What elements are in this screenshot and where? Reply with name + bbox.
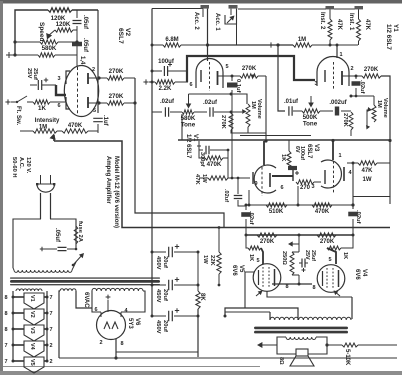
svg-text:1M: 1M xyxy=(298,37,306,43)
wire inst pads link xyxy=(238,8,355,10)
heater V3 xyxy=(4,325,52,341)
wire V2 plate upper xyxy=(88,77,107,79)
svg-text:V2: V2 xyxy=(124,28,131,36)
svg-text:Ampeg Amplifier: Ampeg Amplifier xyxy=(105,156,111,204)
svg-text:.05uf: .05uf xyxy=(54,228,60,243)
label 270K Y1R xyxy=(364,67,379,73)
feedback arrow xyxy=(288,235,299,247)
node xyxy=(231,75,234,78)
svg-text:20uf: 20uf xyxy=(162,320,168,332)
label 1K grid V5 xyxy=(248,254,254,261)
label pins 1,4 xyxy=(79,56,85,65)
label 25uf 25V cath xyxy=(304,250,316,261)
svg-text:.01uf: .01uf xyxy=(284,99,299,105)
tube V3 left dashed xyxy=(261,167,263,196)
svg-text:2: 2 xyxy=(49,359,52,365)
svg-text:Tone: Tone xyxy=(303,121,318,128)
capacitor 100uf v3 xyxy=(288,166,299,175)
svg-text:470K: 470K xyxy=(315,209,330,215)
node xyxy=(248,204,251,207)
resistor 250ohm xyxy=(290,252,299,275)
tube V4 envelope xyxy=(317,265,345,293)
resistor 470K drv xyxy=(312,203,332,207)
wire secondary left xyxy=(277,337,296,354)
svg-text:5Y3: 5Y3 xyxy=(127,318,133,329)
label Ft. Sw. xyxy=(15,106,21,125)
node xyxy=(336,44,339,47)
wire acc1 down xyxy=(236,24,238,45)
capacitor 25uf cath xyxy=(299,259,308,273)
jack Inst.2 pad xyxy=(326,6,335,9)
svg-text:3: 3 xyxy=(311,184,314,190)
svg-text:1/2 6SL7: 1/2 6SL7 xyxy=(185,134,191,159)
label 1M intensity xyxy=(39,125,47,131)
svg-text:.02uf: .02uf xyxy=(160,99,175,105)
label V1 1/2 6SL7 xyxy=(185,134,198,159)
svg-text:450V: 450V xyxy=(155,256,161,270)
svg-text:Speed: Speed xyxy=(38,22,45,42)
border bottom inner line xyxy=(3,366,260,368)
label 270K V2b xyxy=(109,93,124,100)
svg-text:V6: V6 xyxy=(134,318,140,326)
transformer core xyxy=(10,277,160,285)
label 120V AC xyxy=(11,157,31,178)
label pin 4 xyxy=(124,308,128,314)
svg-text:7: 7 xyxy=(49,311,52,317)
tube V2 center dashed xyxy=(77,67,79,115)
svg-text:V1: V1 xyxy=(29,295,35,302)
node xyxy=(355,75,358,78)
svg-text:8: 8 xyxy=(4,311,7,317)
heater bus left xyxy=(12,291,14,361)
svg-text:470K: 470K xyxy=(207,161,222,168)
primary box xyxy=(13,219,76,268)
label 47K 1W v3 xyxy=(194,174,207,185)
svg-text:8Ω: 8Ω xyxy=(278,357,284,365)
ground bus filters xyxy=(152,9,203,317)
tube V3 right arch xyxy=(321,160,341,188)
tube V6 envelope xyxy=(97,311,126,340)
svg-text:V4: V4 xyxy=(29,343,35,351)
HV winding xyxy=(92,288,143,291)
node junction 42 xyxy=(75,40,78,43)
svg-text:6: 6 xyxy=(189,82,192,88)
resistor 120K upper xyxy=(48,8,98,12)
svg-text:1K: 1K xyxy=(342,252,348,259)
wire plate drop xyxy=(135,78,224,228)
label 580K xyxy=(42,45,57,52)
primary winding xyxy=(14,270,72,272)
label pin 6 xyxy=(189,82,192,88)
resistor 5-10K xyxy=(342,343,358,347)
label 470K drv xyxy=(315,209,330,215)
svg-text:270K: 270K xyxy=(109,68,124,75)
resistor 1M input xyxy=(293,43,358,47)
label 580K Tone xyxy=(181,115,196,129)
pot Volume 1M acc xyxy=(242,104,250,133)
node xyxy=(230,111,233,114)
wire right column xyxy=(97,10,99,113)
svg-text:47K: 47K xyxy=(361,168,373,174)
tube V5 envelope xyxy=(253,264,281,292)
border bottom bar xyxy=(0,371,402,375)
svg-text:450V: 450V xyxy=(155,289,161,303)
svg-text:Model M-12 (6V6 version): Model M-12 (6V6 version) xyxy=(113,156,119,228)
svg-text:47K: 47K xyxy=(194,174,200,185)
node xyxy=(97,101,100,104)
svg-text:270K: 270K xyxy=(109,93,124,100)
resistor 470K v3 xyxy=(199,150,228,160)
tube Y1 right arch xyxy=(317,57,349,86)
svg-text:fuse 2A: fuse 2A xyxy=(77,221,83,243)
resistor 270 v3 xyxy=(296,180,321,184)
label .05uf upper xyxy=(82,15,88,30)
tube V5 grids xyxy=(259,267,275,288)
node xyxy=(276,43,279,46)
svg-text:8: 8 xyxy=(285,284,288,290)
capacitor 20uf 450V @252 xyxy=(151,244,200,269)
tube Y1 left electrodes xyxy=(201,70,218,85)
node xyxy=(331,139,334,142)
label 47K inst1 xyxy=(364,19,370,31)
node xyxy=(151,81,154,84)
wire primary sides xyxy=(13,262,76,270)
label Inst. 2 xyxy=(319,12,325,30)
wire grid inst xyxy=(336,45,338,58)
svg-text:.02uf: .02uf xyxy=(248,211,254,225)
label .02uf acc2 xyxy=(203,100,218,106)
resistor 270K V2b xyxy=(107,101,135,105)
tube Y1 right electrodes xyxy=(325,70,342,85)
label pin 8 V4 xyxy=(312,285,315,291)
node junction xyxy=(13,53,16,56)
wire plate row xyxy=(245,204,354,207)
svg-text:20uf: 20uf xyxy=(162,256,168,268)
wire V3R cathode xyxy=(297,186,299,205)
resistor 6.8M xyxy=(163,43,181,47)
wire plate feed xyxy=(245,272,254,308)
svg-text:47K: 47K xyxy=(364,19,370,31)
resistor 1K grid V4 xyxy=(327,235,353,264)
wire v3 cathode xyxy=(272,170,293,181)
switch Ft.Sw. xyxy=(5,96,27,105)
node xyxy=(230,93,233,96)
label pin 6 xyxy=(57,103,60,109)
svg-text:100uf: 100uf xyxy=(158,59,175,65)
capacitor .1uf Y1L xyxy=(227,76,237,178)
resistor 270K Y1R xyxy=(362,74,381,78)
rectifier winding xyxy=(60,289,76,291)
pot Speed wiper xyxy=(46,30,55,40)
svg-text:7: 7 xyxy=(49,295,52,301)
svg-text:V4: V4 xyxy=(361,269,367,277)
resistor 270K V2a xyxy=(107,76,135,80)
node xyxy=(151,70,154,73)
label pin 8 V5 xyxy=(285,284,288,290)
wire V3L grid xyxy=(263,141,265,165)
jack Acc.2 leads xyxy=(203,9,208,45)
label 47K 1W out xyxy=(361,168,373,183)
wire 6.8M row xyxy=(152,44,208,46)
svg-text:.1uf: .1uf xyxy=(102,115,108,127)
resistor 1K v3 xyxy=(287,140,291,168)
svg-text:25V: 25V xyxy=(304,250,310,260)
svg-text:6V: 6V xyxy=(294,146,300,153)
svg-text:Acc. 2: Acc. 2 xyxy=(193,12,199,30)
svg-text:8K: 8K xyxy=(199,293,205,301)
wire to 5-10K xyxy=(327,344,342,346)
svg-text:450V: 450V xyxy=(155,320,161,334)
svg-text:A.C.: A.C. xyxy=(18,157,24,169)
heater V4 xyxy=(4,341,52,357)
resistor 270K acc vert xyxy=(229,113,248,133)
capacitor 300pf net xyxy=(197,141,229,154)
capacitor .01uf xyxy=(289,106,302,116)
svg-text:580K: 580K xyxy=(42,45,57,52)
resistor 270K inst vert xyxy=(349,112,353,136)
wire 5V winding left xyxy=(59,291,60,358)
capacitor .02uf right xyxy=(348,212,358,235)
tube V5 cathode arrow xyxy=(256,291,263,297)
pot 580K wiper xyxy=(186,94,192,109)
wire volume down xyxy=(248,133,266,141)
svg-text:.002uf: .002uf xyxy=(329,100,347,106)
svg-text:.02uf: .02uf xyxy=(355,210,361,224)
svg-text:Acc. 1: Acc. 1 xyxy=(214,13,220,31)
label pin 5 V4 xyxy=(328,257,331,263)
node xyxy=(264,139,267,142)
label 270K grid L xyxy=(260,239,275,245)
label Volume 1M inst xyxy=(376,98,388,118)
svg-text:8: 8 xyxy=(4,295,7,301)
capacitor 20uf 450V @285 xyxy=(151,277,200,302)
svg-text:1M: 1M xyxy=(39,125,47,131)
svg-text:1M: 1M xyxy=(376,100,382,108)
svg-text:V2: V2 xyxy=(29,311,35,318)
OT secondary winding xyxy=(286,337,316,339)
resistor 270K grid R xyxy=(317,233,336,237)
svg-text:22K: 22K xyxy=(209,255,215,266)
heater winding xyxy=(16,289,42,291)
tube Y1 left dashed xyxy=(209,62,211,91)
svg-text:1W: 1W xyxy=(363,177,372,183)
pot 580K Tone xyxy=(182,110,194,114)
svg-text:250Ω: 250Ω xyxy=(281,251,287,265)
capacitor 25uf 25V xyxy=(30,80,56,90)
svg-text:6: 6 xyxy=(280,185,283,191)
heater bus right xyxy=(46,291,48,361)
svg-text:270K: 270K xyxy=(342,113,348,128)
label 250ohm xyxy=(281,251,287,265)
svg-text:Tone: Tone xyxy=(181,122,196,129)
svg-text:6V6: 6V6 xyxy=(354,269,360,280)
label pin 5 xyxy=(225,64,228,70)
svg-text:270: 270 xyxy=(300,185,311,191)
wire 5V winding right xyxy=(76,291,92,308)
label 300pf xyxy=(199,152,205,167)
wire cathode thick xyxy=(187,56,315,82)
svg-text:5: 5 xyxy=(93,108,96,114)
resistor 580K xyxy=(40,40,58,44)
svg-text:270K: 270K xyxy=(260,239,275,245)
label .1uf tail xyxy=(102,115,108,127)
label .05uf line xyxy=(54,228,60,243)
svg-text:20uf: 20uf xyxy=(162,289,168,301)
svg-text:V5: V5 xyxy=(29,359,35,366)
node xyxy=(298,234,301,237)
svg-text:2: 2 xyxy=(49,343,52,349)
svg-text:270K: 270K xyxy=(364,67,379,73)
HV box xyxy=(92,291,145,312)
label 8ohm xyxy=(278,357,284,365)
heater V5 xyxy=(4,357,52,373)
wire V3L plate xyxy=(248,190,250,205)
svg-text:1W: 1W xyxy=(201,174,207,183)
jack Acc.1 switch xyxy=(225,9,237,24)
label 6VAC xyxy=(83,292,89,308)
label 470K trem xyxy=(68,123,83,129)
pot 500K Tone xyxy=(302,109,333,113)
label 47K inst2 xyxy=(336,19,342,31)
wire V6 cathode out xyxy=(116,339,198,358)
wire V3R grid xyxy=(332,141,334,161)
svg-text:3: 3 xyxy=(57,76,60,82)
svg-text:.02uf: .02uf xyxy=(359,80,365,94)
svg-text:6: 6 xyxy=(94,307,97,313)
wire V4 plate xyxy=(351,297,353,319)
svg-text:V1: V1 xyxy=(192,134,198,142)
wire bus main xyxy=(178,114,390,140)
switch mains xyxy=(72,253,84,266)
label 100uf xyxy=(158,59,175,65)
wire plug legs xyxy=(41,193,51,219)
node xyxy=(351,203,354,206)
svg-text:Ft. Sw.: Ft. Sw. xyxy=(15,106,21,125)
pot Volume 1M inst xyxy=(355,95,376,130)
resistor 1K grid V5 xyxy=(246,235,263,264)
wire grid row xyxy=(246,234,353,236)
label 120K upper xyxy=(51,15,66,22)
capacitor .002uf xyxy=(335,107,339,116)
grid stub thick xyxy=(56,85,66,95)
resistor 47K 1W v3 xyxy=(199,176,250,180)
node cross xyxy=(6,52,12,58)
svg-text:.02uf: .02uf xyxy=(203,100,218,106)
label 470K v3 xyxy=(207,161,222,168)
choke 8K xyxy=(196,291,200,309)
border top bar xyxy=(0,0,402,4)
svg-text:50-60 H: 50-60 H xyxy=(11,157,17,178)
svg-text:120K: 120K xyxy=(56,21,71,28)
plug xyxy=(36,175,55,192)
resistor 510K xyxy=(266,203,287,207)
capacitor .02uf trem inj xyxy=(223,177,246,206)
label pin 5 V5 xyxy=(256,258,259,264)
label V3 6SL7 xyxy=(306,144,319,159)
svg-text:6: 6 xyxy=(57,103,60,109)
pot wiper intensity xyxy=(49,134,55,142)
label .01uf xyxy=(284,99,299,105)
node junction left xyxy=(13,40,16,43)
resistor 470K osc xyxy=(38,53,55,57)
tube V3 right electrodes xyxy=(325,167,344,184)
node xyxy=(297,204,300,207)
capacitor .02uf left xyxy=(241,205,251,235)
label Ampeg xyxy=(105,156,119,228)
svg-text:.05uf: .05uf xyxy=(82,38,88,53)
wire tone to 270k xyxy=(341,110,351,112)
wire 580K row xyxy=(15,41,77,43)
node xyxy=(325,343,328,346)
node xyxy=(151,44,154,47)
svg-text:120 V.: 120 V. xyxy=(25,157,31,174)
label 2.2K xyxy=(159,86,172,92)
svg-text:300pf: 300pf xyxy=(199,152,205,167)
label 1K grid V4 xyxy=(342,252,348,259)
wire intensity row xyxy=(20,130,98,132)
label Intensity xyxy=(35,118,60,124)
label 270K V2a xyxy=(109,68,124,75)
svg-text:8: 8 xyxy=(120,341,123,347)
jack Acc.1 pad xyxy=(229,5,238,9)
node cross xyxy=(268,42,273,47)
tube V2 grid hooks xyxy=(66,71,70,109)
wire cathode riser xyxy=(298,245,300,284)
resistor 47K inst1 xyxy=(357,9,361,45)
resistor 47K 1W out xyxy=(358,161,390,165)
label pin 9 xyxy=(254,181,257,187)
label 6.8M xyxy=(165,37,178,43)
node xyxy=(329,44,332,47)
label 510K xyxy=(269,209,284,215)
wire trem cap xyxy=(152,107,182,117)
label fuse 2A xyxy=(77,221,83,243)
resistor 470K trem xyxy=(62,129,88,133)
node xyxy=(388,139,391,142)
svg-text:8: 8 xyxy=(312,285,315,291)
svg-text:5: 5 xyxy=(328,257,331,263)
svg-text:V3: V3 xyxy=(313,144,319,152)
svg-text:0.1uf: 0.1uf xyxy=(235,79,241,93)
label Acc. 2 xyxy=(193,12,199,30)
svg-text:3: 3 xyxy=(314,81,317,87)
wire B+ node column xyxy=(197,252,199,357)
wire vol box top xyxy=(189,94,248,104)
label .02uf right xyxy=(355,210,361,224)
svg-text:5: 5 xyxy=(256,258,259,264)
capacitor .05uf lower xyxy=(72,42,82,47)
svg-text:1K: 1K xyxy=(248,254,254,261)
svg-text:.05uf: .05uf xyxy=(82,15,88,30)
capacitor 20uf 450V @316 xyxy=(151,308,200,333)
svg-text:25V: 25V xyxy=(26,68,32,78)
resistor 120K lower xyxy=(55,28,77,32)
label .02uf inst xyxy=(359,80,365,94)
svg-text:2: 2 xyxy=(92,67,95,73)
wire lower row xyxy=(10,54,77,56)
resistor 22K 1W bleed xyxy=(217,226,221,286)
svg-text:.02uf: .02uf xyxy=(223,189,229,202)
svg-text:6VAC: 6VAC xyxy=(83,292,89,308)
label 120K lower xyxy=(56,21,71,28)
svg-text:V3: V3 xyxy=(29,327,35,334)
wire screen feed 2 xyxy=(225,308,298,320)
label 500K Tone xyxy=(303,114,318,128)
ground arrow secondary xyxy=(257,342,277,348)
svg-text:V5: V5 xyxy=(238,265,244,273)
node xyxy=(350,95,353,98)
wire plate column xyxy=(76,10,78,66)
